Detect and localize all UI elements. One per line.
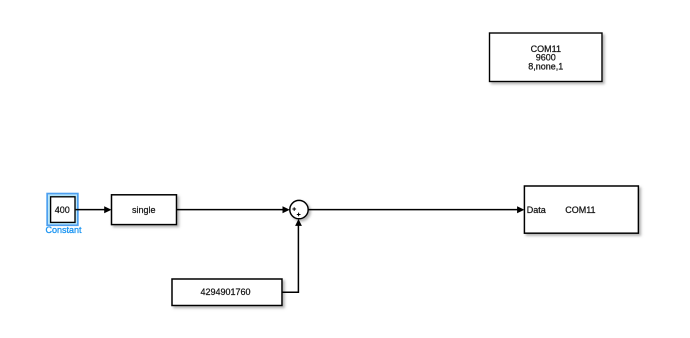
sum block (round, ++) bbox=[290, 200, 308, 218]
svg-text:8,none,1: 8,none,1 bbox=[528, 61, 563, 71]
wire sum to serial send bbox=[308, 206, 524, 213]
constant block (400) selection highlight bbox=[47, 194, 78, 226]
constant block (400) bbox=[51, 197, 75, 223]
wire single to sum bbox=[177, 206, 290, 213]
svg-text:single: single bbox=[132, 205, 156, 215]
wire 4294901760 to sum (L-shaped) bbox=[282, 219, 302, 292]
constant block (4294901760) bbox=[172, 279, 282, 306]
svg-text:400: 400 bbox=[55, 205, 70, 215]
svg-text:Data: Data bbox=[527, 205, 546, 215]
label Constant bbox=[45, 225, 82, 235]
wire constant to single bbox=[76, 206, 112, 213]
svg-text:Constant: Constant bbox=[45, 225, 82, 235]
data type conversion block (single) bbox=[112, 195, 177, 225]
serial configuration block U1 (COM11 9600 8,none,1) bbox=[490, 33, 603, 82]
svg-text:4294901760: 4294901760 bbox=[200, 287, 250, 297]
svg-text:COM11: COM11 bbox=[565, 205, 595, 215]
serial send block U2 (Data COM11) bbox=[524, 186, 638, 233]
